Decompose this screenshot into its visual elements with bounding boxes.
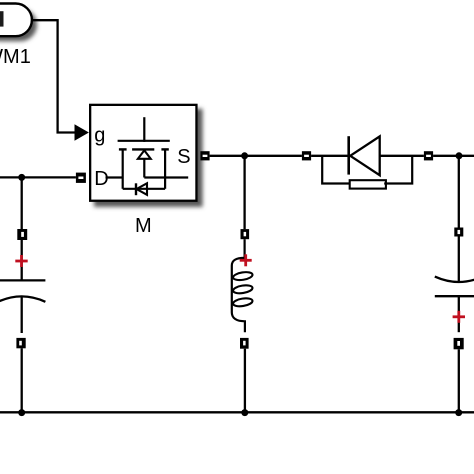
mosfet body arrow xyxy=(138,150,151,158)
mosfet bottom line xyxy=(123,188,165,190)
wire L1 to ground rail xyxy=(244,349,246,413)
wire C1 bottom lead xyxy=(21,296,23,333)
mosfet block M shadow xyxy=(94,109,203,207)
wire C2 bottom lead xyxy=(458,296,460,332)
diode D1 triangle xyxy=(350,136,380,175)
node right top xyxy=(456,152,463,159)
capacitor C2 bottom plate xyxy=(435,295,474,297)
C1 polarity plus xyxy=(15,255,27,267)
wire C1 top lead xyxy=(21,240,23,280)
port diode cathode xyxy=(424,151,433,160)
wire node down to inductor xyxy=(243,156,245,229)
node rail left xyxy=(18,409,25,416)
wire pill to gate xyxy=(32,20,75,132)
ground rail wire xyxy=(0,411,474,413)
goto tag PWM1 block xyxy=(0,4,32,37)
diode cathode bar xyxy=(347,136,350,174)
mosfet left vertical xyxy=(122,149,124,188)
port C1 bottom xyxy=(16,338,25,348)
node on D wire xyxy=(18,174,25,181)
wire diode to right edge xyxy=(433,155,474,157)
port D xyxy=(76,173,86,183)
snubber left drop xyxy=(322,156,350,184)
svg-text:PWM1: PWM1 xyxy=(0,46,31,68)
body diode bar xyxy=(135,183,137,195)
svg-text:D: D xyxy=(94,168,108,190)
port diode anode xyxy=(302,151,311,160)
capacitor C1 top plate xyxy=(0,279,45,281)
snubber resistor Rs xyxy=(350,180,386,188)
mosfet S line xyxy=(144,176,188,178)
mosfet channel segment 3 xyxy=(161,148,168,150)
wire C2 to ground rail xyxy=(458,349,460,412)
inductor L1 spine xyxy=(232,258,245,332)
wire C1 to ground rail xyxy=(21,348,23,412)
mosfet gate plate xyxy=(118,140,170,142)
mosfet channel segment 1 xyxy=(119,148,127,150)
mosfet D stub xyxy=(106,176,123,178)
node on S wire xyxy=(241,152,248,159)
mosfet right vertical xyxy=(164,149,166,188)
arrowhead into g xyxy=(75,124,89,140)
mosfet block M body xyxy=(90,105,196,201)
inductor L1 loop 2 xyxy=(233,284,254,294)
goto tag inner glyph xyxy=(0,11,4,26)
goto tag PWM1 shadow xyxy=(0,9,37,42)
mosfet channel segment 2 xyxy=(132,148,154,150)
body diode triangle xyxy=(137,183,148,195)
port C2 top xyxy=(454,228,463,237)
port C1 top xyxy=(17,229,27,240)
port C2 bottom xyxy=(454,338,464,349)
capacitor C1 curved plate xyxy=(0,296,45,301)
node rail middle xyxy=(241,409,248,416)
wire diode left xyxy=(311,155,349,157)
inductor L1 loop 1 xyxy=(233,271,254,281)
wire diode right xyxy=(380,155,424,157)
wire C2 top lead xyxy=(458,237,460,282)
port L1 bottom xyxy=(240,338,249,349)
node rail right xyxy=(455,409,462,416)
C2 polarity plus xyxy=(453,311,465,323)
wire L1 top lead xyxy=(244,239,246,258)
mosfet gate lead xyxy=(143,117,145,142)
port S xyxy=(200,151,209,160)
snubber right drop xyxy=(384,156,412,184)
inductor L1 loop 3 xyxy=(233,297,254,307)
port L1 top xyxy=(241,229,250,239)
svg-text:S: S xyxy=(177,146,190,168)
wire left node down xyxy=(21,177,23,229)
svg-text:M: M xyxy=(135,215,152,237)
L1 polarity plus xyxy=(240,254,252,266)
capacitor C2 curved plate xyxy=(435,277,474,282)
svg-text:g: g xyxy=(94,124,105,146)
wire into D from left xyxy=(0,176,76,178)
mosfet source vertical xyxy=(143,159,145,178)
wire S to diode xyxy=(210,155,302,157)
wire node down to capacitor C2 xyxy=(458,156,460,228)
